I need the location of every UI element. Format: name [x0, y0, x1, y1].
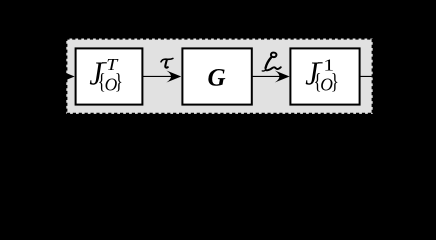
- svg-text:G: G: [208, 65, 226, 92]
- svg-text:}: }: [115, 69, 123, 94]
- svg-text:}: }: [331, 69, 339, 94]
